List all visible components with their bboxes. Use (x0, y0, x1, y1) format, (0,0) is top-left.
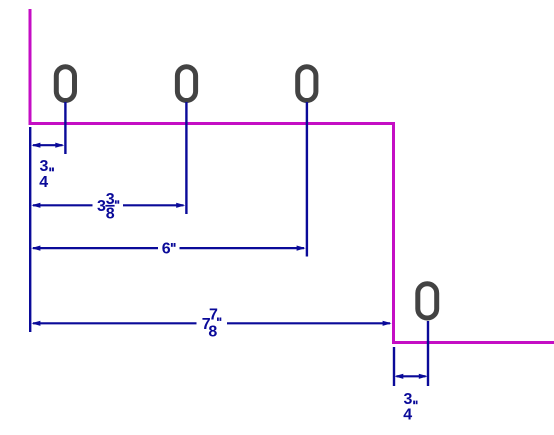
dimension 6 label (162, 241, 176, 258)
slot 3 (298, 67, 316, 101)
extension line: slot 3 center (306, 102, 308, 257)
slot 1 (56, 67, 74, 101)
svg-text:7: 7 (209, 307, 218, 324)
extension line: left datum edge (29, 127, 31, 332)
svg-text:4: 4 (39, 174, 48, 191)
svg-text:4: 4 (403, 407, 412, 424)
dimension 3-3/8 (left datum to slot 2) line with arrows (31, 203, 185, 208)
dimension 7-7/8 label (202, 307, 222, 341)
svg-text:6: 6 (162, 241, 171, 258)
dimension 3/4 (left datum to slot 1) line with arrows (31, 143, 64, 148)
svg-text:8: 8 (208, 324, 217, 341)
dimension 7-7/8 (left datum to right step) line with arrows (31, 321, 391, 326)
extension line: slot 4 center (427, 321, 429, 386)
svg-text:3: 3 (404, 391, 413, 408)
dimension 6 (left datum to slot 3) line with arrows (31, 246, 305, 251)
slot 4 (418, 284, 437, 318)
svg-text:3: 3 (97, 198, 106, 215)
dimension 3-3/8 label (97, 191, 119, 223)
slot 2 (177, 67, 195, 101)
part outline (magenta sheet edge) (30, 9, 554, 343)
svg-text:3: 3 (40, 158, 49, 175)
dimension 3/4 bottom label (403, 391, 417, 424)
svg-text:8: 8 (106, 206, 115, 223)
dimension 3/4 label (stacked 3 over 4 with inch marks) (39, 158, 54, 191)
extension line: slot 2 center (185, 102, 187, 214)
extension line: right step edge (393, 347, 395, 386)
dimension 3/4 (step edge to slot 4) line with arrows (394, 374, 428, 379)
extension line: slot 1 center (64, 102, 66, 154)
